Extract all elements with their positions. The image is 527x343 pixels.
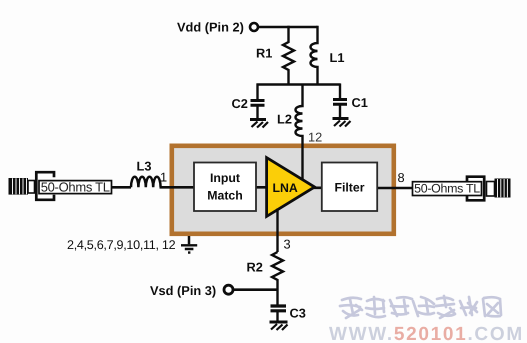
svg-text:50-Ohms TL: 50-Ohms TL	[41, 179, 110, 194]
svg-text:12: 12	[308, 130, 322, 145]
svg-text:Match: Match	[207, 189, 243, 203]
svg-text:C3: C3	[290, 306, 306, 321]
svg-text:L2: L2	[277, 112, 292, 127]
svg-text:C2: C2	[232, 96, 248, 111]
svg-text:WWW.520101.COM: WWW.520101.COM	[329, 324, 524, 343]
svg-text:50-Ohms TL: 50-Ohms TL	[414, 182, 480, 196]
svg-text:Vsd (Pin 3): Vsd (Pin 3)	[150, 283, 216, 298]
svg-text:1: 1	[160, 170, 167, 185]
svg-text:R2: R2	[247, 260, 263, 275]
svg-text:3: 3	[284, 237, 291, 252]
svg-text:2,4,5,6,7,9,10,11, 12: 2,4,5,6,7,9,10,11, 12	[67, 238, 176, 252]
svg-text:L3: L3	[137, 159, 152, 174]
svg-text:L1: L1	[330, 50, 345, 65]
svg-text:8: 8	[398, 170, 405, 185]
svg-text:Input: Input	[210, 171, 240, 185]
svg-text:R1: R1	[256, 46, 272, 61]
svg-text:Filter: Filter	[334, 181, 364, 195]
svg-text:Vdd (Pin 2): Vdd (Pin 2)	[177, 20, 244, 35]
svg-text:LNA: LNA	[273, 181, 298, 195]
svg-text:C1: C1	[352, 95, 368, 110]
